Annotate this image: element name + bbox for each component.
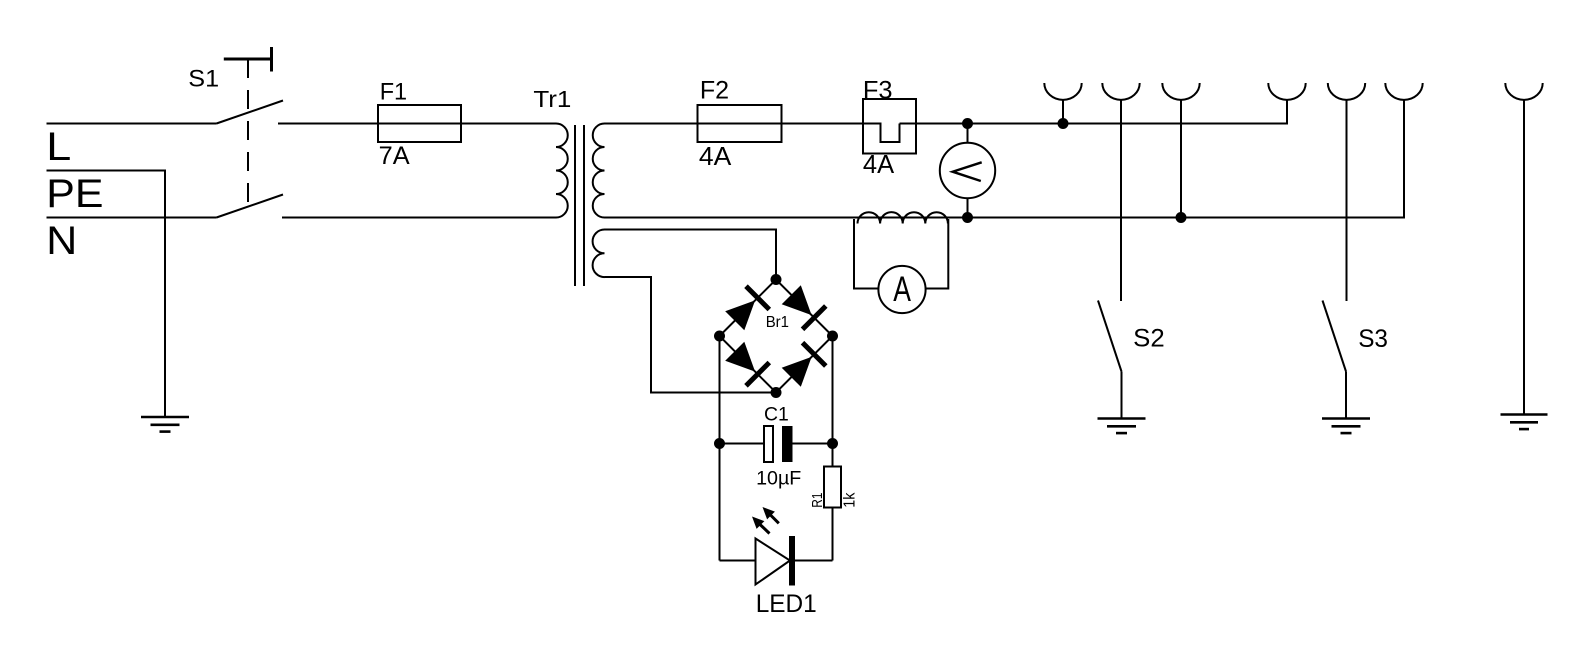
svg-text:F3: F3: [863, 78, 893, 105]
wire secondary2 top to bridge: [605, 230, 777, 280]
capacitor C1 plate negative: [764, 426, 773, 462]
svg-text:S3: S3: [1358, 325, 1388, 353]
capacitor C1 right wire: [793, 443, 833, 445]
socket X5: [1328, 83, 1365, 100]
resistor R1: [824, 467, 841, 508]
svg-text:4A: 4A: [863, 149, 895, 179]
svg-text:R1: R1: [810, 493, 826, 508]
ammeter shunt humps: [858, 212, 948, 223]
wire N switch to primary: [282, 217, 556, 219]
switch S1 pole2 arm: [217, 195, 284, 218]
wire L input: [47, 123, 217, 125]
junction top at socket X1: [1058, 118, 1069, 129]
fuse F3 inner notch: [863, 124, 900, 143]
svg-text:Tr1: Tr1: [533, 86, 571, 112]
svg-text:L: L: [46, 125, 71, 169]
voltmeter stub bottom: [967, 198, 969, 217]
ground PE: [141, 417, 189, 432]
svg-text:10µF: 10µF: [756, 468, 801, 490]
bridge Br1 diamond: [720, 280, 833, 393]
svg-text:PE: PE: [46, 172, 103, 216]
socket X3: [1162, 83, 1199, 100]
LED1 arrow 2: [763, 507, 779, 523]
fuse F2: [698, 105, 782, 142]
switch S1 linkage dashed: [247, 59, 249, 207]
svg-text:LED1: LED1: [756, 590, 817, 618]
ammeter A1 body: [878, 266, 925, 313]
junction bridge right: [827, 331, 838, 342]
bridge diode D1: [725, 286, 769, 330]
svg-text:F2: F2: [700, 78, 729, 105]
junction bottom at voltmeter: [962, 212, 973, 223]
bridge diode D2: [782, 285, 826, 329]
svg-text:C1: C1: [764, 403, 789, 425]
wire secondary1 top rail right of F3 notch to socket4: [900, 101, 1288, 124]
svg-text:1k: 1k: [841, 492, 858, 507]
svg-text:S2: S2: [1133, 325, 1165, 353]
LED1 arrow 1: [752, 517, 770, 534]
svg-text:N: N: [46, 219, 77, 263]
junction C1 right: [827, 438, 838, 449]
transformer Tr1 primary winding: [556, 124, 568, 218]
fuse F1: [378, 105, 461, 142]
junction bridge left: [714, 331, 725, 342]
socket X4: [1268, 83, 1305, 100]
voltmeter pointer glyph: [953, 162, 982, 181]
wire LED cathode: [795, 560, 833, 562]
junction C1 left: [714, 438, 725, 449]
wire PE to ground: [47, 171, 166, 418]
svg-text:Br1: Br1: [766, 314, 789, 331]
transformer Tr1 core: [574, 125, 576, 286]
junction bridge top: [771, 274, 782, 285]
ground at socket X7: [1501, 415, 1548, 430]
LED1 triangle: [756, 539, 791, 585]
voltmeter stub top: [967, 124, 969, 144]
socket X2: [1102, 83, 1139, 100]
capacitor C1 left wire: [720, 443, 765, 445]
socket X7: [1505, 83, 1542, 100]
LED1 cathode bar: [789, 536, 795, 586]
svg-text:4A: 4A: [699, 143, 732, 171]
junction bridge bottom: [771, 387, 782, 398]
wire L switch to primary: [278, 123, 556, 125]
junction top at voltmeter: [962, 118, 973, 129]
bridge diode D4: [782, 343, 826, 387]
svg-text:7A: 7A: [379, 143, 411, 170]
wire R1 to LED: [832, 508, 834, 561]
svg-text:S1: S1: [188, 67, 219, 93]
voltmeter V1 body: [940, 143, 995, 198]
wire N input: [47, 217, 217, 219]
bridge diode D3: [725, 342, 769, 386]
socket X6: [1385, 83, 1422, 100]
ammeter branch box: [854, 219, 879, 289]
ground at S3: [1322, 419, 1370, 434]
switch S2 lower wire: [1121, 372, 1123, 419]
transformer Tr1 secondary2 winding: [593, 230, 605, 278]
transformer Tr1 secondary1 winding: [593, 124, 605, 218]
switch S3 arm: [1323, 301, 1347, 372]
svg-text:F1: F1: [380, 78, 407, 105]
capacitor C1 plate positive: [782, 426, 793, 462]
wire bridge plus vertical: [832, 336, 834, 467]
fuse F3 (thermal breaker): [863, 99, 916, 154]
wire secondary2 bottom to bridge: [605, 277, 777, 393]
socket X1: [1044, 83, 1081, 100]
svg-text:A: A: [893, 270, 911, 309]
wire LED anode: [720, 560, 756, 562]
switch S2 arm: [1098, 301, 1122, 372]
ground at S2: [1098, 419, 1146, 434]
wire bridge minus vertical: [719, 336, 721, 561]
switch S1 actuator: [224, 47, 272, 72]
wire secondary1 top rail left of F3 notch: [605, 123, 881, 125]
junction bottom at socket X3: [1176, 212, 1187, 223]
switch S1 pole1 arm: [217, 101, 284, 124]
wire secondary1 bottom rail to socket6: [605, 101, 1405, 218]
switch S3 lower wire: [1345, 372, 1347, 419]
